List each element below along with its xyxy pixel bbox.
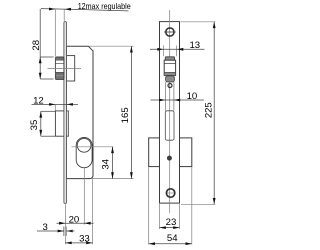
dim 34 [101, 147, 114, 179]
dim 12 [32, 95, 79, 111]
svg-text:33: 33 [79, 233, 90, 244]
dim 23 [160, 204, 180, 229]
vertical centerline (front view) [169, 10, 171, 213]
adjusting screw below roller [168, 84, 172, 88]
cylinder horizontal centerline [72, 146, 114, 148]
euro profile cylinder cutout [76, 137, 92, 167]
svg-text:10: 10 [187, 91, 198, 102]
svg-text:20: 20 [69, 214, 80, 225]
faceplate (side view) [64, 22, 67, 204]
svg-text:13: 13 [189, 40, 200, 51]
dim 33 [65, 233, 92, 244]
dim 54 [149, 167, 192, 245]
extension line cylinder axis [83, 168, 85, 224]
roller centerline [48, 68, 82, 70]
roller latch (front view) [164, 57, 175, 82]
bottom screw hole [166, 189, 175, 197]
lock body (side view) [66, 46, 93, 178]
dim 20 [57, 214, 94, 225]
dim 12max regulable [40, 2, 131, 57]
roller latch (side view) [55, 57, 64, 80]
svg-text:23: 23 [166, 217, 177, 228]
extension line faceplate [64, 204, 66, 244]
roller height dimension [39, 57, 54, 79]
svg-text:54: 54 [167, 233, 178, 244]
case side lines [164, 82, 166, 111]
svg-text:34: 34 [101, 158, 112, 169]
dim 10 [151, 91, 205, 102]
extension line body back [92, 179, 94, 244]
svg-text:35: 35 [29, 120, 40, 131]
svg-text:225: 225 [204, 102, 215, 118]
roller latch housing (behind faceplate) [66, 56, 74, 81]
faceplate (front view) [160, 22, 180, 204]
dim 225 [181, 22, 216, 205]
dim 165 [89, 46, 134, 178]
deadbolt (side view) [55, 111, 68, 136]
case screw [167, 156, 171, 160]
dim 3 [37, 222, 75, 236]
svg-text:165: 165 [120, 107, 131, 123]
dim 13 [150, 40, 205, 56]
svg-text:12max regulable: 12max regulable [78, 2, 131, 11]
lock case wide section (front view) [149, 138, 192, 167]
fixing slot [165, 111, 174, 140]
dim 35 [29, 111, 55, 136]
top screw hole [164, 28, 176, 36]
svg-text:28: 28 [31, 40, 42, 51]
